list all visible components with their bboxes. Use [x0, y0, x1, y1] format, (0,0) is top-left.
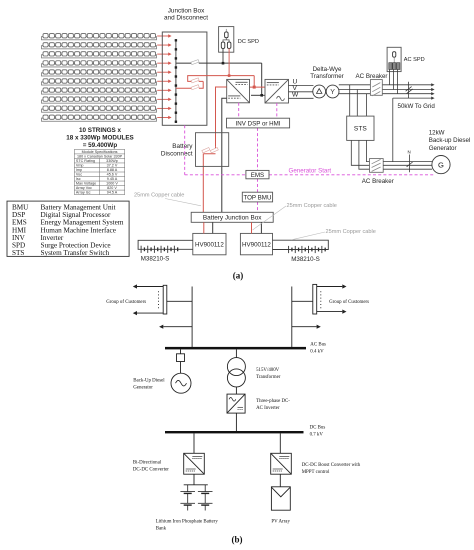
- svg-text:M38210-S: M38210-S: [141, 255, 170, 262]
- svg-text:25mm Copper cable: 25mm Copper cable: [287, 203, 337, 209]
- svg-text:37.2 V: 37.2 V: [107, 163, 118, 167]
- svg-text:G: G: [438, 160, 444, 169]
- svg-text:Max Voltage: Max Voltage: [76, 181, 96, 185]
- svg-text:Generator: Generator: [133, 385, 153, 390]
- svg-text:N: N: [408, 150, 411, 155]
- svg-text:TOP BMU: TOP BMU: [243, 194, 271, 201]
- svg-text:Three-phase DC-: Three-phase DC-: [256, 399, 290, 404]
- svg-text:Imp: Imp: [76, 168, 82, 172]
- svg-text:Lithium Iron Phosphate Battery: Lithium Iron Phosphate Battery: [156, 520, 219, 525]
- svg-text:PV Array: PV Array: [271, 520, 290, 525]
- svg-text:DC Bus: DC Bus: [310, 425, 326, 430]
- svg-text:STS: STS: [354, 126, 367, 133]
- svg-text:Array Voc: Array Voc: [76, 186, 92, 190]
- svg-text:DC-DC Boost Converter with: DC-DC Boost Converter with: [302, 463, 361, 468]
- svg-text:8.88 A: 8.88 A: [107, 168, 118, 172]
- svg-text:Battery Junction Box: Battery Junction Box: [203, 215, 262, 222]
- svg-text:1000 V: 1000 V: [106, 181, 118, 185]
- svg-text:Disconnect: Disconnect: [161, 151, 193, 158]
- svg-text:0.4 kV: 0.4 kV: [310, 350, 324, 355]
- svg-text:18 x 330Wp MODULES: 18 x 330Wp MODULES: [66, 135, 134, 142]
- svg-text:Junction Box: Junction Box: [168, 7, 205, 14]
- svg-text:515V/400V: 515V/400V: [256, 368, 280, 373]
- svg-text:Back-Up Diesel: Back-Up Diesel: [133, 378, 165, 383]
- svg-text:Voc: Voc: [76, 172, 82, 176]
- svg-text:Group of Customers: Group of Customers: [106, 300, 146, 305]
- svg-text:Transformer: Transformer: [256, 375, 281, 380]
- svg-text:Delta-Wye: Delta-Wye: [313, 66, 342, 73]
- svg-text:AC SPD: AC SPD: [404, 57, 425, 63]
- svg-text:HV900112: HV900112: [242, 241, 271, 248]
- svg-text:AC Breaker: AC Breaker: [356, 73, 388, 80]
- svg-text:= 59.400Wp: = 59.400Wp: [83, 142, 118, 149]
- svg-text:(a): (a): [233, 270, 244, 280]
- svg-text:AC Inverter: AC Inverter: [256, 406, 280, 411]
- svg-text:EMS: EMS: [251, 172, 264, 179]
- svg-text:(b): (b): [232, 535, 243, 545]
- svg-text:Module Specifications: Module Specifications: [82, 150, 118, 154]
- svg-text:Bi-Directional: Bi-Directional: [133, 461, 162, 466]
- svg-text:DC SPD: DC SPD: [238, 39, 259, 45]
- svg-text:94.5 A: 94.5 A: [107, 190, 118, 194]
- svg-text:Battery: Battery: [172, 143, 193, 150]
- svg-text:HV900112: HV900112: [195, 241, 224, 248]
- svg-text:Vmp: Vmp: [76, 163, 84, 167]
- svg-text:M38210-S: M38210-S: [291, 256, 320, 263]
- svg-text:Back-up Diesel: Back-up Diesel: [429, 137, 471, 144]
- svg-text:Generator: Generator: [429, 145, 457, 152]
- svg-text:INV DSP or HMI: INV DSP or HMI: [236, 120, 281, 127]
- svg-text:50kW To Grid: 50kW To Grid: [398, 103, 436, 110]
- svg-text:Array Isc: Array Isc: [76, 190, 91, 194]
- svg-text:DC-DC Converter: DC-DC Converter: [133, 468, 169, 473]
- svg-text:25mm Copper cable: 25mm Copper cable: [134, 193, 184, 199]
- svg-text:STS: STS: [12, 249, 24, 257]
- svg-text:9.45 A: 9.45 A: [107, 177, 118, 181]
- svg-text:System Transfer Switch: System Transfer Switch: [41, 249, 110, 257]
- svg-text:AC Bus: AC Bus: [310, 343, 326, 348]
- svg-text:Bank: Bank: [156, 527, 167, 532]
- svg-text:Y: Y: [330, 89, 335, 96]
- svg-text:0.7 kV: 0.7 kV: [310, 432, 324, 437]
- svg-text:820 V: 820 V: [107, 186, 117, 190]
- svg-text:Transformer: Transformer: [310, 73, 343, 80]
- svg-text:Group of Customers: Group of Customers: [329, 300, 369, 305]
- svg-text:10 STRINGS x: 10 STRINGS x: [79, 127, 121, 134]
- svg-text:25mm Copper cable: 25mm Copper cable: [326, 229, 376, 235]
- svg-text:330Wp: 330Wp: [106, 159, 118, 163]
- svg-text:AC Breaker: AC Breaker: [362, 178, 394, 185]
- svg-text:STC Rating: STC Rating: [76, 159, 95, 163]
- svg-text:12kW: 12kW: [429, 129, 445, 136]
- svg-text:Generator Start: Generator Start: [289, 168, 332, 175]
- svg-text:Isc: Isc: [76, 177, 81, 181]
- svg-text:and Disconnect: and Disconnect: [164, 15, 208, 22]
- svg-text:180 x Canadian Solar 330P: 180 x Canadian Solar 330P: [77, 154, 123, 158]
- svg-text:MPPT control: MPPT control: [302, 470, 330, 475]
- svg-text:45.6 V: 45.6 V: [107, 172, 118, 176]
- svg-text:W: W: [292, 92, 299, 99]
